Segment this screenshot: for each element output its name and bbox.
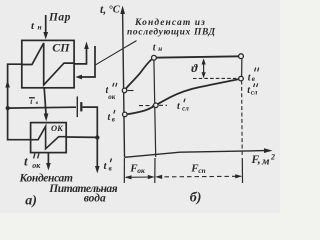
svg-text:а): а) [25, 194, 37, 209]
node on feed curve at F_ок [154, 103, 159, 108]
svg-text:сл: сл [251, 88, 258, 96]
svg-text:в: в [112, 116, 115, 124]
boundary line right end [241, 58, 243, 77]
svg-text:F,: F, [251, 154, 261, 166]
svg-text:2: 2 [270, 153, 275, 162]
ОК heat-exchange zigzag [31, 126, 67, 149]
curve: saturation line t_н (top) [154, 56, 240, 57]
node t_в'' right [239, 76, 244, 81]
label t_в' (axis) [108, 110, 115, 124]
svg-text:Конденсат из: Конденсат из [134, 17, 206, 28]
dimension F_ок [125, 175, 155, 180]
dashed level line t_сл' [139, 104, 167, 106]
dimension F_сп (dashed) [155, 174, 242, 179]
node t_н top left [152, 55, 157, 60]
svg-text:°С: °С [109, 4, 121, 15]
label t_ок'' [24, 154, 41, 171]
wire: condensate СП to ОК [44, 88, 49, 122]
dashed right boundary below t_в'' [241, 81, 244, 158]
y-axis t,°C [120, 6, 125, 158]
svg-text:в: в [109, 165, 112, 173]
label F_сп [190, 163, 205, 176]
wire: feedwater inlet (from bottom) [95, 138, 100, 174]
svg-text:н: н [38, 23, 42, 32]
cooler ОК box [31, 123, 67, 153]
svg-text:сп: сп [198, 166, 206, 175]
curve: feedwater temperature [125, 79, 242, 115]
svg-text:н: н [158, 45, 162, 53]
svg-text:вода: вода [84, 193, 106, 205]
boundary line F_ок [154, 60, 156, 158]
svg-text:ОК: ОК [51, 123, 64, 133]
wire: feed line from junction into ОК [66, 136, 97, 138]
node: feed junction [95, 135, 99, 139]
node top right [239, 54, 244, 59]
callout line to drain pipe [96, 41, 137, 65]
svg-text:в: в [252, 75, 255, 83]
label t̄_в (bypass water temperature) [29, 97, 39, 106]
steam inlet arrow into СП [43, 15, 48, 40]
label t_сл' [177, 99, 189, 113]
svg-text:ок: ок [32, 161, 41, 170]
label t_в' (feedwater inlet temperature) [104, 158, 112, 172]
svg-text:м: м [261, 155, 270, 167]
svg-text:сл: сл [182, 104, 189, 112]
node t_ок'' on axis [122, 88, 127, 93]
wire: bypass line with valve to feed line [8, 106, 76, 109]
label F_ок [129, 163, 145, 176]
label t_в'' [248, 68, 259, 84]
svg-text:Пар: Пар [48, 11, 71, 23]
svg-text:ок: ок [137, 166, 145, 175]
temperature-head arrow ϑ [202, 58, 206, 78]
dashed level line t_в'' [193, 77, 240, 79]
wire: feedwater out of СП up to next heater [74, 42, 89, 64]
dimension extension lines [124, 158, 242, 183]
svg-text:t: t [24, 154, 28, 169]
svg-text:СП: СП [52, 40, 70, 54]
dash at t_ок'' [128, 90, 134, 92]
СП heat-exchange zigzag [22, 43, 74, 85]
wire: drain from following ПВД into СП [75, 46, 95, 79]
wire: valve outlet down to feed junction [83, 107, 98, 137]
node t_в' on axis [123, 112, 128, 117]
svg-text:t,: t, [100, 4, 106, 16]
svg-text:последующих ПВД: последующих ПВД [127, 27, 216, 38]
valve (orifice) symbol [77, 96, 81, 117]
x-axis F,м² [125, 148, 273, 157]
heater СП box [22, 40, 74, 87]
node: mixing junction on riser [6, 106, 10, 110]
svg-text:б): б) [190, 191, 202, 206]
svg-text:ок: ок [108, 93, 116, 101]
curve: drain temperature in ОК zone (steep) [125, 58, 154, 90]
wire: feedwater to СП (left riser) [5, 64, 30, 140]
svg-text:ϑ: ϑ [191, 61, 198, 75]
label t_ок'' (axis) [106, 83, 117, 101]
label t_сл'' [247, 83, 258, 96]
wire: condensate out of ОК [46, 153, 51, 171]
